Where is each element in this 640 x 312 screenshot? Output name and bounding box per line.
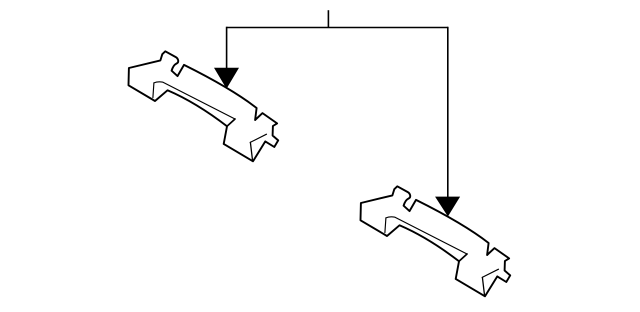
- part 1 seat vertical: [250, 142, 252, 161]
- part 1 outer outline: [129, 51, 279, 161]
- leader drop left: [226, 27, 228, 70]
- bracket part 2: [361, 186, 511, 296]
- bracket part 1: [129, 51, 279, 161]
- part 2 seat thin line: [482, 269, 498, 277]
- part 2 fold line: [386, 217, 467, 254]
- part 1 fold end edge: [227, 119, 235, 126]
- part 1 fold line: [154, 82, 235, 119]
- arrowhead left: [215, 68, 239, 88]
- part 2 seat vertical: [482, 277, 484, 296]
- leader horizontal bar: [227, 27, 448, 29]
- leader tick: [327, 10, 329, 27]
- part 2 left inner vertical: [385, 218, 386, 233]
- part 2 outer outline: [361, 186, 511, 296]
- arrowhead right: [436, 197, 460, 216]
- part 1 left inner vertical: [153, 83, 154, 98]
- part 1 seat thin line: [250, 134, 266, 142]
- part 2 fold end edge: [459, 254, 467, 261]
- leader drop right: [447, 27, 449, 199]
